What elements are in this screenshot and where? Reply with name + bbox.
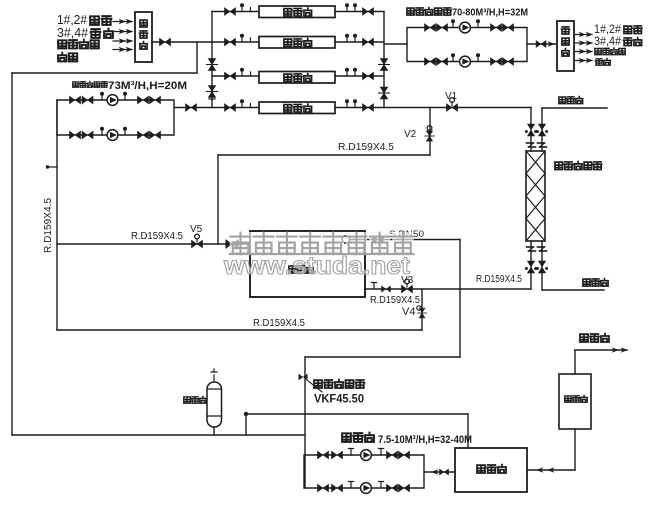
wire S.DN50 line <box>350 239 460 241</box>
wire bottom return R.D159X4.5 <box>57 329 422 331</box>
wire HX bottom-right pipe <box>542 241 604 290</box>
wire V2 drop <box>429 108 431 156</box>
label plate heat exchanger <box>555 162 602 170</box>
label electric on-off valve <box>314 380 364 388</box>
gauge boiler 2 inlet <box>240 34 244 42</box>
valves make-up pump P3 suction <box>318 451 343 459</box>
wire outer bottom run <box>12 434 304 436</box>
outlet valve boiler 3 <box>363 72 374 80</box>
wire boiler 2 outlet branch <box>335 41 384 43</box>
wire softener to tank <box>527 469 575 471</box>
flange HX top-left <box>527 143 536 147</box>
circulating pump P2 <box>107 130 118 141</box>
svg-text:V2: V2 <box>404 129 417 140</box>
svg-text:3#,4#: 3#,4# <box>594 34 621 48</box>
wire pumps to distributor <box>527 43 557 45</box>
gauge pump P2 in <box>100 127 104 135</box>
inlet valve boiler 4 <box>225 104 236 112</box>
label spare <box>58 53 77 62</box>
wire HX top-right pipe <box>542 108 607 151</box>
wire bus to supply pumps <box>384 43 407 45</box>
stub P3 out <box>378 449 383 456</box>
wire boiler 3 inlet branch <box>212 75 259 77</box>
flange HX bottom-left <box>527 247 536 251</box>
wire collector to boiler bus <box>152 41 212 43</box>
bus bottom tick <box>209 98 215 100</box>
gauge boiler 3 inlet <box>240 68 244 76</box>
wire pump suction from soft tank <box>424 471 455 473</box>
stub P4 out <box>378 482 383 489</box>
label R.D159X4.5 on V5 line <box>131 231 183 242</box>
wire softener down <box>574 429 576 470</box>
tank top nozzle circle <box>342 236 350 244</box>
wire V5 line <box>57 243 250 245</box>
valves supply pump P5 suction <box>425 24 448 32</box>
distributor (supply header) <box>557 21 574 71</box>
label R.D159X4.5 bottom <box>253 318 305 329</box>
circulating pump P1 <box>107 95 118 106</box>
valves pump P2 suction <box>70 131 94 139</box>
arrows tap water <box>612 347 629 353</box>
valves pump P1 discharge <box>138 96 161 104</box>
valves supply pump P6 suction <box>425 58 448 66</box>
valve tank discharge <box>382 286 391 292</box>
electric boiler 2 <box>259 37 335 49</box>
bus valve lower right <box>379 87 390 99</box>
wire HX top-left pipe <box>530 108 532 152</box>
label V4 <box>402 306 415 318</box>
svg-text:V1: V1 <box>445 91 458 102</box>
arrow + valve on suction <box>431 469 448 475</box>
inlet valve boiler 2 <box>225 38 236 46</box>
wire pump outlet to boiler 4 <box>174 107 259 109</box>
make-up pump P4 <box>361 483 372 494</box>
wire boiler 1 inlet branch <box>212 11 259 13</box>
supply outlet arrows <box>574 32 593 64</box>
label V1 <box>445 91 458 102</box>
svg-text:70-80M³/H,H=32M: 70-80M³/H,H=32M <box>452 7 528 19</box>
valve V4 <box>417 306 427 318</box>
gauges boiler 2 outlet <box>345 34 357 42</box>
gauge P6 out <box>476 53 480 61</box>
make-up pump loop <box>304 455 424 488</box>
watermark line 2 <box>223 252 411 280</box>
label annex supply <box>595 48 625 55</box>
label V2 <box>404 129 417 140</box>
collector (water header) <box>135 12 152 62</box>
wire make-up header <box>305 356 460 358</box>
label circulating pumps 70-80M3/H <box>407 7 528 19</box>
wire V2 return to tank riser <box>218 154 430 156</box>
water softener <box>559 374 591 429</box>
wire boiler main supply <box>384 107 531 109</box>
stub boiler 1 inlet <box>250 8 252 12</box>
valve V5 <box>192 234 203 248</box>
arrows into tank <box>536 467 555 473</box>
svg-text:V4: V4 <box>402 306 415 318</box>
gauge P5 in <box>451 19 455 27</box>
svg-text:3#,4#: 3#,4# <box>57 25 89 40</box>
inlet valve boiler 1 <box>225 8 236 16</box>
label spare supply <box>595 58 610 65</box>
bus valve lower left <box>207 86 218 98</box>
svg-text:R.D159X4.5: R.D159X4.5 <box>131 231 183 242</box>
wire boiler 3 outlet branch <box>335 75 384 77</box>
wire V4 drop <box>421 289 423 330</box>
inlet valve boiler 3 <box>225 72 236 80</box>
gauge pump P2 out <box>123 127 127 135</box>
node junction at 197,42 <box>196 42 198 73</box>
valve HX bottom-left <box>525 261 537 273</box>
gauge P5 out <box>476 19 480 27</box>
label V3 <box>401 275 414 286</box>
valves make-up pump P3 discharge <box>387 451 410 459</box>
gauge P6 in <box>451 53 455 61</box>
flanged valve at tank inlet <box>226 240 238 248</box>
label 3#,4# supply <box>594 34 642 48</box>
wire tank riser down <box>217 155 219 244</box>
outlet valve boiler 1 <box>363 8 374 16</box>
valve V2 <box>425 126 434 142</box>
svg-text:R.D159X4.5: R.D159X4.5 <box>253 318 305 329</box>
label metering bottom <box>583 279 608 287</box>
make-up pump P3 <box>361 450 372 461</box>
heat storage tank <box>250 231 365 297</box>
wire junction drop <box>245 414 247 435</box>
label pressure tank <box>184 396 206 403</box>
label R.D159X4.5 on V2 return <box>338 142 394 153</box>
valves pump P1 suction <box>70 96 94 104</box>
label R.D159X4.5 below V3 <box>370 295 420 306</box>
outlet valve boiler 4 <box>363 104 374 112</box>
label 1#,2# supply <box>594 22 642 36</box>
wire outer left riser <box>11 73 13 435</box>
wire suction riser R.D159X4.5 <box>56 100 58 330</box>
boiler inlet bus <box>211 12 213 108</box>
label V5 <box>190 224 203 235</box>
supply pump loop <box>407 28 527 62</box>
wire left return header <box>12 72 197 74</box>
wire to soft tank top <box>467 414 469 448</box>
wire boiler 1 outlet branch <box>335 11 384 13</box>
wire tap water <box>575 350 627 374</box>
motor valve VKF45.50 <box>299 374 322 392</box>
supply pump P5 <box>460 22 471 33</box>
label make-up pumps 7.5-10M3/H <box>342 433 472 446</box>
gauges boiler 4 outlet <box>345 99 357 107</box>
valves make-up pump P4 discharge <box>387 484 410 492</box>
label annex return water <box>58 40 99 49</box>
stub boiler 4 inlet <box>250 104 252 108</box>
stub P3 in <box>348 449 353 456</box>
pressure tank <box>207 369 222 435</box>
label 3#,4# return water <box>57 25 113 40</box>
label R.D159X4.5 right <box>476 274 522 285</box>
label S.DN50 <box>389 229 424 240</box>
gauges boiler 3 outlet <box>345 68 357 76</box>
watermark line 1 <box>230 232 414 255</box>
stub boiler 2 inlet <box>250 38 252 42</box>
soft water tank <box>455 448 527 492</box>
valves pump P2 discharge <box>138 131 161 139</box>
svg-text:R.D159X4.5: R.D159X4.5 <box>370 295 420 306</box>
gauges boiler 1 outlet <box>345 3 357 11</box>
supply pump P6 <box>460 56 471 67</box>
outlet valve boiler 2 <box>363 38 374 46</box>
valve on collector outlet <box>160 38 171 46</box>
valve pump outlet <box>186 104 197 112</box>
wire S.DN50 drop <box>459 240 461 358</box>
gauge boiler 1 inlet <box>240 3 244 11</box>
gauge pump P1 in <box>100 92 104 100</box>
svg-text:www.studa.net: www.studa.net <box>223 252 411 280</box>
electric boiler 3 <box>259 72 335 84</box>
svg-text:VKF45.50: VKF45.50 <box>314 394 364 406</box>
bus valve upper right <box>379 59 390 71</box>
label tap water <box>580 334 609 342</box>
valves supply pump P5 discharge <box>491 24 514 32</box>
electric boiler 4 <box>259 102 335 114</box>
flange HX top-right <box>538 143 547 147</box>
label 1#,2# return water <box>57 12 111 27</box>
valves supply pump P6 discharge <box>491 58 514 66</box>
valve before distributor <box>536 41 555 48</box>
wire make-up cross line <box>244 412 468 416</box>
stub boiler 3 inlet <box>250 72 252 76</box>
flange HX bottom-right <box>538 247 547 251</box>
circulating pump loop left <box>57 100 174 135</box>
bus valve upper left <box>207 59 218 71</box>
svg-text:73M³/H,H=20M: 73M³/H,H=20M <box>108 80 187 92</box>
label riser R.D159X4.5 <box>43 198 54 253</box>
boiler outlet bus <box>383 12 385 108</box>
wire HX bottom-left pipe <box>530 241 532 289</box>
svg-text:V5: V5 <box>190 224 203 235</box>
wire boiler 4 outlet branch <box>335 107 384 109</box>
gauge boiler 4 inlet <box>240 99 244 107</box>
label metering top <box>559 97 583 104</box>
gauge pump P1 out <box>123 92 127 100</box>
tick on riser <box>46 165 57 168</box>
wire tank discharge line <box>365 288 531 290</box>
label VKF45.50 <box>314 394 364 406</box>
valve HX top-left <box>525 124 537 136</box>
valve V3 <box>402 279 413 293</box>
plate heat exchanger <box>526 151 545 241</box>
valve V1 <box>447 98 458 112</box>
valve HX top-right <box>536 124 548 136</box>
svg-text:R.D159X4.5: R.D159X4.5 <box>338 142 394 153</box>
valves make-up pump P4 suction <box>318 484 343 492</box>
label hot water circulating pumps 73M3/H <box>73 80 187 92</box>
svg-text:R.D159X4.5: R.D159X4.5 <box>476 274 522 285</box>
wire make-up riser <box>304 357 306 488</box>
valve on S.DN50 <box>373 236 384 244</box>
electric boiler 1 <box>259 6 335 18</box>
svg-text:7.5-10M³/H,H=32-40M: 7.5-10M³/H,H=32-40M <box>378 434 472 446</box>
wire boiler 2 inlet branch <box>212 41 259 43</box>
stub P4 in <box>348 482 353 489</box>
valve HX bottom-right <box>536 261 548 273</box>
return inlet arrows <box>113 19 133 53</box>
svg-text:R.D159X4.5: R.D159X4.5 <box>43 198 54 253</box>
stub on tank discharge <box>371 283 376 290</box>
